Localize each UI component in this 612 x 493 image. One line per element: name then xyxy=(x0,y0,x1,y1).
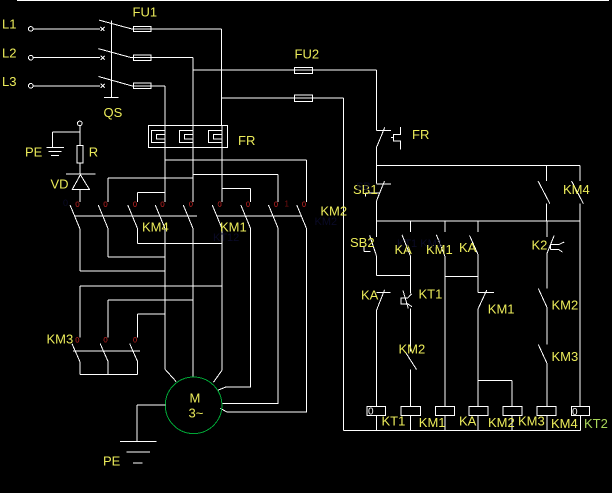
wire R to VD xyxy=(79,163,81,174)
svg-text:KM2: KM2 xyxy=(488,415,515,430)
coil KT1 xyxy=(367,406,386,415)
contact KM1 branch upper stub xyxy=(444,221,446,232)
contact KM4-NC left lower stub xyxy=(545,204,547,221)
contact KA-NC blade xyxy=(377,290,385,310)
svg-text:M: M xyxy=(190,390,201,405)
node c7 red terminal xyxy=(247,202,250,207)
node c8 red terminal xyxy=(275,202,278,207)
wire control bus1 xyxy=(376,165,580,167)
relay FR control NC contact tick xyxy=(376,130,390,132)
wire KM3-2 feed from c5 column xyxy=(108,300,193,337)
wire KM3 shorting bus xyxy=(80,361,138,374)
contactor KM4 contact 1 blade xyxy=(70,205,80,228)
wire L1 drop to FR xyxy=(221,29,223,126)
wire coil KT1 bottom xyxy=(376,416,378,431)
svg-text:KM4: KM4 xyxy=(563,182,590,197)
wire L2 to QS xyxy=(33,57,100,59)
wire KA-NC to KT1 coil xyxy=(376,310,378,406)
wire mid-band h3 heater2 to c8 xyxy=(193,174,278,202)
wire K2 to KM2 contact xyxy=(546,254,548,289)
switch QS pole 3 blade xyxy=(99,77,132,86)
svg-text:KM3: KM3 xyxy=(518,414,545,429)
wire branch to c3 xyxy=(138,193,166,203)
switch QS pole 1 fixed contact x-mark xyxy=(101,27,105,31)
wire heater2 to c5 xyxy=(192,147,194,202)
switch QS mechanical link bar xyxy=(104,21,119,98)
wire heater3 feed through xyxy=(221,126,223,148)
wire c8 column to motor right xyxy=(222,229,278,404)
relay FR heater block outline xyxy=(148,126,227,148)
svg-text:PE: PE xyxy=(25,145,43,160)
wire KA2 branch to KM2 coil xyxy=(477,309,479,407)
contact KA branch upper stub xyxy=(409,221,411,232)
svg-text:KM2: KM2 xyxy=(552,298,579,313)
wire coil KM4 bottom xyxy=(546,416,548,431)
svg-text:0: 0 xyxy=(368,407,374,418)
coil KM4 xyxy=(537,406,556,415)
coil KM2 xyxy=(469,406,488,415)
wire fuse2 through xyxy=(132,57,193,59)
svg-text:SB2: SB2 xyxy=(350,235,375,250)
contactor KM3 contact 1 blade xyxy=(72,344,80,362)
contactor KM4 contact 4 blade xyxy=(155,205,165,228)
wire c4 column down to motor xyxy=(165,229,176,382)
contact KM1-2 blade xyxy=(478,290,487,309)
node c4 red terminal xyxy=(161,202,164,207)
wire KM1 branch to KA coil xyxy=(444,277,446,407)
contactor KM3 contact 3 blade xyxy=(130,344,138,362)
wire c2 bottom to c4 column xyxy=(108,229,165,258)
resistor R xyxy=(77,146,83,164)
svg-text:L1: L1 xyxy=(2,17,16,32)
svg-text:KT2: KT2 xyxy=(584,416,608,431)
svg-text:KM3: KM3 xyxy=(552,349,579,364)
svg-text:KM3: KM3 xyxy=(47,331,74,346)
svg-text:1: 1 xyxy=(285,200,290,209)
wire control left rail top xyxy=(375,70,377,131)
contact KM2 NO blade xyxy=(538,289,547,308)
node KM3-3 red terminal xyxy=(134,338,137,343)
node L3 terminal xyxy=(29,84,34,89)
wire seal bus 2 xyxy=(445,276,478,278)
svg-text:0: 0 xyxy=(63,198,68,208)
coil KM1 xyxy=(401,406,420,415)
svg-text:KA: KA xyxy=(459,240,477,255)
switch QS pole 2 fixed contact x-mark xyxy=(101,56,105,60)
contactor KM4 link line xyxy=(74,215,197,217)
wire control return rail xyxy=(343,98,345,431)
svg-text:L3: L3 xyxy=(2,74,16,89)
wire SB2 to seal junction xyxy=(375,255,377,275)
wire rail FR to bus1 xyxy=(375,146,377,165)
node KM3-2 red terminal xyxy=(104,338,107,343)
button SB2 blade xyxy=(370,236,377,256)
top border line xyxy=(17,0,609,2)
wire L3 to QS xyxy=(33,85,100,87)
wire KM4NC rail to KT2 coil xyxy=(579,221,581,406)
wire coil KM2 bottom xyxy=(477,416,479,431)
wire seal bus 1 xyxy=(376,275,410,277)
ground PE left symbol xyxy=(46,147,64,155)
contact K2 delay upper stub xyxy=(546,221,548,237)
contact KA NO blade xyxy=(402,235,410,256)
svg-text:KA: KA xyxy=(459,414,477,429)
svg-text:K2: K2 xyxy=(532,238,548,253)
wire FU2 upper tap from L2 drop xyxy=(193,69,313,71)
wire jog to KM3 coil xyxy=(478,380,512,406)
relay FR control overload bracket xyxy=(391,127,401,149)
wire KA2 branch down xyxy=(477,255,479,292)
wire KM1 branch down xyxy=(444,256,446,277)
node L1 terminal xyxy=(29,27,34,32)
node c9 red terminal xyxy=(303,202,306,207)
node L2 terminal xyxy=(29,55,34,60)
svg-text:KM1: KM1 xyxy=(488,302,515,317)
button SB1 cap bar xyxy=(366,193,380,196)
wire branch to PE ground xyxy=(53,132,80,148)
switch QS pole 3 fixed contact x-mark xyxy=(101,84,105,88)
svg-text:KT12: KT12 xyxy=(213,232,239,244)
wire heater3 to c6 xyxy=(221,147,223,202)
svg-text:FR: FR xyxy=(238,133,255,148)
wire heater2 feed through xyxy=(192,126,194,148)
contact K2 delay cup xyxy=(550,242,564,252)
contactor KM1 contact 1 blade xyxy=(212,205,222,228)
wire L2 drop to FR xyxy=(192,58,194,126)
wire L1 to QS xyxy=(33,28,100,30)
wire SB1 to bus2 xyxy=(375,201,377,221)
contact KM4-NC right upper stub xyxy=(579,166,581,181)
fuse FU2 lower xyxy=(295,95,313,101)
wire c9 column to motor right xyxy=(220,229,306,413)
wire c3 bottom to c6 column xyxy=(138,229,223,244)
fuse FU1 pole 2 xyxy=(134,55,152,60)
wire FU2 lower to return rail xyxy=(313,97,344,99)
ground PE bottom symbol xyxy=(120,442,156,463)
svg-text:QS: QS xyxy=(104,105,123,120)
contact K2 delay blade xyxy=(547,236,554,254)
wire coil KM3 bottom xyxy=(511,416,513,431)
wire heater1 feed through xyxy=(164,126,166,148)
svg-text:SB: SB xyxy=(356,181,371,193)
svg-text:KA: KA xyxy=(361,287,379,302)
contact KM1-2 tick xyxy=(478,291,494,293)
contactor KM4 contact 5 blade xyxy=(183,205,193,228)
svg-text:KM2: KM2 xyxy=(399,342,426,357)
switch QS pole 2 blade xyxy=(99,49,132,58)
svg-text:R: R xyxy=(89,144,98,159)
node c6 red terminal xyxy=(218,202,221,207)
contact KT1 delay blade xyxy=(403,291,408,309)
wire KA branch to seal junction xyxy=(409,256,411,294)
contact KM3 NO blade xyxy=(538,345,547,364)
contactor KM4 contact 2 blade xyxy=(98,205,108,228)
svg-text:FR: FR xyxy=(412,127,429,142)
svg-text:L2: L2 xyxy=(2,46,16,61)
switch QS pole 1 blade xyxy=(99,20,132,29)
contact KA-NC tick xyxy=(377,292,391,294)
wire c6 column down to motor xyxy=(214,229,223,383)
button SB2 upper stub xyxy=(375,221,377,237)
contactor KM1 link line xyxy=(217,215,302,217)
wire L3 drop to FR xyxy=(164,86,166,126)
wire branch to c2 xyxy=(108,178,193,202)
contact KT1 delay cup xyxy=(401,294,412,307)
wire fuse1 through xyxy=(132,28,222,30)
svg-text:KT1 KM1: KT1 KM1 xyxy=(397,238,443,250)
contactor KM3 contact 2 blade xyxy=(100,344,108,362)
svg-text:KT1: KT1 xyxy=(382,414,406,429)
wire KM3-3 feed from c4 column xyxy=(138,314,166,337)
contactor KM1 contact 4 blade xyxy=(297,205,307,228)
button SB1 upper stub and tick xyxy=(376,166,391,185)
wire mid-band h4 heater3 to c7 xyxy=(222,189,251,202)
wire to KM1 coil xyxy=(409,370,411,407)
node c5 red terminal xyxy=(189,202,192,207)
motor M circle xyxy=(165,377,222,434)
wire fuse3 through xyxy=(132,85,165,87)
wire KT1 branch down xyxy=(409,309,411,352)
svg-text:KM1: KM1 xyxy=(419,415,446,430)
button SB1 blade xyxy=(377,181,385,201)
svg-text:KM4: KM4 xyxy=(551,416,578,431)
wire heater1 to c4 xyxy=(164,147,166,202)
coil KA xyxy=(436,406,455,415)
node c1 red terminal xyxy=(76,202,79,207)
diode VD triangle xyxy=(72,175,89,190)
relay FR heater element 1 xyxy=(151,131,165,143)
relay FR heater element 3 xyxy=(208,131,222,143)
wire FU2 lower tap from L1 drop xyxy=(222,97,313,99)
relay FR control NC blade xyxy=(377,127,385,146)
contactor KM3 link line xyxy=(73,350,140,352)
svg-text:KM4: KM4 xyxy=(142,220,169,235)
contact KM4-NC left upper stub xyxy=(545,166,547,181)
relay FR heater element 2 xyxy=(179,131,193,143)
wire KM3 contact to KM4 coil xyxy=(546,363,548,406)
fuse FU1 pole 3 xyxy=(134,83,152,88)
contactor KM1 contact 2 blade xyxy=(241,205,251,228)
node c2 red terminal xyxy=(104,202,107,207)
contactor KM1 contact 3 blade xyxy=(269,205,279,228)
svg-text:3~: 3~ xyxy=(189,406,204,421)
wire coil KA bottom xyxy=(444,416,446,431)
wire c1 bottom to c4 column xyxy=(80,229,165,272)
contact KM4-NC right lower stub xyxy=(579,204,581,221)
wire c7 column to motor right xyxy=(218,229,251,391)
button SB2 cap bar xyxy=(364,247,371,252)
fuse FU1 pole 1 xyxy=(134,26,152,31)
svg-text:PE: PE xyxy=(103,453,121,468)
coil KM3 xyxy=(503,406,522,415)
wire coil KM1 bottom xyxy=(409,416,411,431)
wire mid-band h2 heater1 to c9 xyxy=(165,160,307,202)
svg-text:FU2: FU2 xyxy=(295,47,320,62)
node QS earth circle xyxy=(78,121,83,126)
node c3 red terminal xyxy=(134,202,137,207)
svg-text:KM2: KM2 xyxy=(315,216,338,228)
contactor KM4 contact 3 blade xyxy=(128,205,138,228)
contact KM4-NC right blade xyxy=(572,181,584,204)
wire FU2 upper to control rail xyxy=(313,69,377,71)
contact KM4-NC left blade xyxy=(538,181,550,204)
contact KA2 branch upper stub xyxy=(477,221,479,232)
svg-text:KT1: KT1 xyxy=(419,287,443,302)
fuse FU2 upper xyxy=(295,67,313,73)
contact KM1 NO blade xyxy=(436,235,444,256)
wire c5 column down to motor xyxy=(192,229,194,378)
wire control bus2 xyxy=(376,220,580,222)
wire KM3-1 feed from c6 column xyxy=(80,286,222,338)
svg-text:VD: VD xyxy=(51,177,69,192)
contact KM2-NC blade xyxy=(405,352,417,370)
svg-text:FU1: FU1 xyxy=(133,4,158,19)
wire VD to contact c1 xyxy=(79,189,81,202)
wire earth circle to R xyxy=(79,126,81,146)
node KM3-1 red terminal xyxy=(76,338,79,343)
wire motor PE lead xyxy=(137,405,165,442)
coil KT2 xyxy=(571,406,589,415)
wire control bottom bus xyxy=(344,430,581,432)
diode VD cathode bar xyxy=(66,173,95,175)
contact KA2 NO blade xyxy=(470,236,479,255)
wire KM2 to KM3 contact xyxy=(546,307,548,345)
wire coil KT2 bottom xyxy=(580,416,582,431)
